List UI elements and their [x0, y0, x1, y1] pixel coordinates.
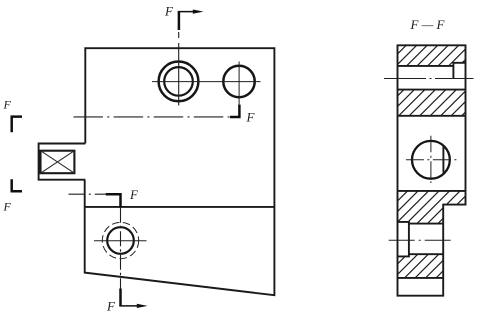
chord of side face through hole [442, 146, 444, 172]
stud block (crossed box) [41, 151, 75, 174]
centre line horizontal through top holes [152, 81, 261, 83]
bottom arrowhead [137, 304, 148, 308]
step line between upper and lower body [85, 206, 275, 208]
svg-text:F — F: F — F [410, 17, 446, 32]
hatch band 1 left part [398, 45, 454, 66]
top arrowhead [193, 10, 204, 14]
svg-text:F: F [3, 98, 12, 112]
svg-text:F: F [106, 299, 116, 314]
keyway notch top right [453, 63, 465, 79]
hatch band 1 right part (above notch) [453, 45, 465, 63]
threaded hole (lower) core circle [107, 227, 134, 254]
centre line vertical of left hole [178, 32, 180, 106]
hatch band 3 (stepped) [398, 191, 466, 224]
hole centre line vertical [430, 136, 432, 183]
cut line through lower hole [120, 208, 122, 289]
counterbored hole (left top), outer circle [159, 62, 199, 102]
crossed box diagonals [41, 151, 75, 174]
cross-drilled hole circle [412, 141, 450, 179]
svg-text:F: F [246, 110, 256, 125]
axis line upper (through keyway) [384, 78, 474, 80]
section outer profile [398, 45, 466, 295]
band2 top edge [398, 89, 466, 91]
band1 bottom edge [398, 65, 454, 67]
band3 top edge [398, 190, 466, 192]
hatch band 2 [398, 90, 466, 116]
view bracket lower left [12, 179, 22, 191]
plain hole (right top) [223, 66, 254, 97]
cut jog corner lower [106, 194, 121, 208]
hatch band 4 (stepped) [398, 254, 444, 278]
cut jog corner at right hole [230, 105, 239, 117]
hole bore top edge [409, 223, 443, 225]
cut trace: lower dash-dot y=194 [69, 193, 107, 195]
section cut: bottom corner with arrow [119, 289, 122, 306]
axis line lower (through bore) [389, 239, 452, 241]
part outline (body) [85, 48, 275, 295]
boss outline (left protrusion) [39, 144, 86, 180]
section cut: top corner with arrow [178, 12, 181, 30]
bottom band top edge [398, 277, 444, 279]
hole bore bottom edge [409, 253, 443, 255]
left slot notch [398, 222, 409, 257]
hole centre line horizontal [406, 159, 457, 161]
band2 bottom edge [398, 115, 466, 117]
svg-text:F: F [129, 187, 139, 202]
threaded hole major-dia dashed circle [102, 222, 138, 258]
counterbored hole inner circle [164, 67, 193, 96]
view bracket upper left [12, 117, 22, 133]
svg-text:F: F [3, 200, 12, 214]
centre line vertical of right hole [238, 62, 240, 106]
centre line horizontal of lower hole [94, 240, 147, 242]
svg-text:F: F [164, 4, 174, 19]
cut trace: long dash-dot y=117 [74, 116, 230, 118]
